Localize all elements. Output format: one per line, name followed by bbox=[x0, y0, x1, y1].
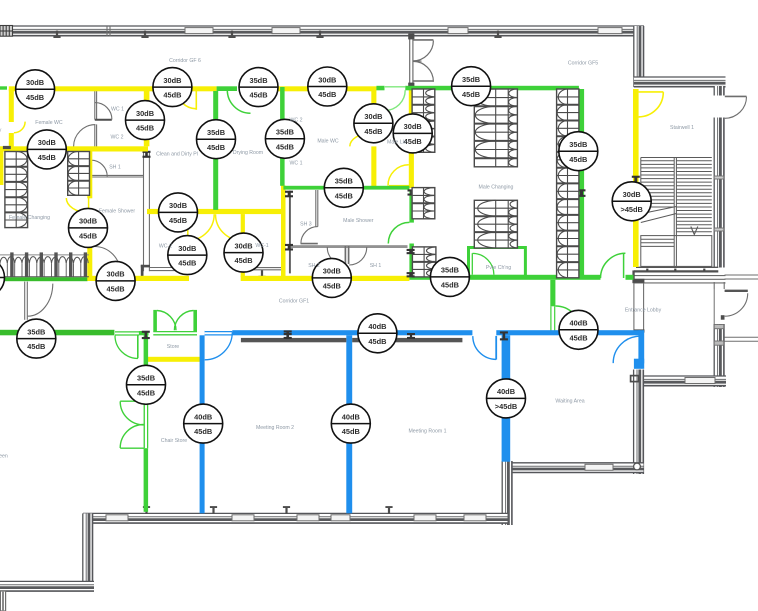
wall corridor divider gf5 bbox=[408, 34, 414, 89]
badge 30/45 changing north bbox=[27, 130, 66, 169]
wall wc2 west bbox=[95, 124, 97, 146]
lockers male-changing center upper bbox=[474, 89, 517, 167]
wall green waiting west door frame bbox=[551, 306, 555, 331]
wall entrance right stub bbox=[714, 282, 724, 289]
svg-text:45dB: 45dB bbox=[136, 124, 154, 133]
svg-text:45dB: 45dB bbox=[27, 342, 45, 351]
wall lobby west thin bbox=[633, 279, 644, 333]
badge 30/45 male-lockers west bbox=[393, 114, 432, 153]
lockers female-changing east bbox=[68, 152, 90, 196]
badge 35/45 store west bbox=[127, 365, 166, 404]
svg-text:Male WC: Male WC bbox=[317, 139, 339, 145]
svg-text:Male Changing: Male Changing bbox=[479, 185, 514, 191]
svg-text:Drying Room: Drying Room bbox=[233, 150, 263, 156]
badge 40/45 meeting2 west bbox=[184, 404, 223, 443]
badge 35/45 drying west bbox=[197, 120, 236, 159]
svg-text:35dB: 35dB bbox=[441, 266, 459, 275]
svg-text:Male Lkr: Male Lkr bbox=[387, 140, 407, 146]
svg-text:45dB: 45dB bbox=[249, 91, 267, 100]
svg-text:45dB: 45dB bbox=[107, 285, 125, 294]
wall green pvte room outline bbox=[469, 248, 526, 277]
wall green male-changing east ibeam bbox=[578, 189, 586, 197]
wall waiting south horizontal bbox=[505, 463, 644, 473]
svg-text:35dB: 35dB bbox=[137, 374, 155, 383]
wall yellow male-wc east bbox=[371, 87, 376, 133]
svg-text:40dB: 40dB bbox=[497, 387, 515, 396]
wall yellow wc divider bbox=[241, 214, 245, 277]
badge 35/45 wc1b west bbox=[265, 119, 304, 158]
wall canteen south horizontal bbox=[0, 581, 94, 591]
door yellow showers double bbox=[188, 214, 242, 240]
wall 30dB yellow corridor gf1 south-east bbox=[241, 276, 410, 281]
svg-text:30dB: 30dB bbox=[26, 78, 44, 87]
badge 30/45 wc-2 bbox=[168, 236, 207, 275]
door male-shower double bbox=[327, 246, 366, 265]
wall yellow shower corridor west lower bbox=[87, 213, 92, 278]
lockers male-changing east tall bbox=[557, 89, 579, 278]
svg-text:35dB: 35dB bbox=[462, 75, 480, 84]
lockers male-changing col1 mid bbox=[412, 188, 435, 219]
door green chair-store double bbox=[120, 401, 145, 448]
wall stairwell right window marks bbox=[714, 176, 724, 231]
svg-text:45dB: 45dB bbox=[276, 142, 294, 151]
svg-text:45dB: 45dB bbox=[169, 216, 187, 225]
wall yellow male-lockers west bbox=[409, 87, 414, 188]
wall 40dB blue meeting divider bbox=[346, 335, 352, 513]
door entrance main bbox=[725, 291, 748, 316]
wall waiting south panel bbox=[585, 464, 613, 470]
badge 30/45 wc east bbox=[126, 101, 165, 140]
wall yellow female-wc west lower bbox=[9, 133, 14, 147]
wall 40dB blue meeting north east bbox=[496, 330, 640, 335]
svg-text:30dB: 30dB bbox=[623, 190, 641, 199]
wall 30dB yellow corridor gf1 south-west bbox=[87, 276, 189, 281]
svg-text:Female Changing: Female Changing bbox=[9, 215, 50, 221]
svg-text:45dB: 45dB bbox=[318, 90, 336, 99]
badge 30/45 male-wc north bbox=[308, 67, 347, 106]
svg-text:45dB: 45dB bbox=[137, 388, 155, 397]
door green corridor lobby bbox=[601, 253, 626, 278]
wall wc-2 south double bbox=[150, 268, 188, 271]
svg-text:>45dB: >45dB bbox=[495, 402, 517, 411]
door blue store-room gap bbox=[205, 330, 233, 336]
wall female-shower east double bbox=[144, 152, 150, 272]
door green male-changing north bbox=[385, 87, 405, 111]
wall waiting south corner circle bbox=[634, 463, 641, 470]
svg-text:45dB: 45dB bbox=[38, 153, 56, 162]
door sh3 bbox=[301, 227, 318, 244]
door corridor gf6 yellow bbox=[177, 89, 197, 110]
svg-text:40dB: 40dB bbox=[342, 412, 360, 421]
svg-text:Meeting Room 1: Meeting Room 1 bbox=[408, 429, 446, 435]
wall yellow male-lockers stub bbox=[389, 185, 410, 188]
svg-text:45dB: 45dB bbox=[569, 333, 587, 342]
svg-text:WC 2: WC 2 bbox=[111, 135, 124, 141]
wall green waiting west bbox=[550, 280, 555, 307]
wall green store west bbox=[144, 335, 149, 512]
wall lobby south panel bbox=[685, 378, 715, 384]
svg-text:30dB: 30dB bbox=[107, 270, 125, 279]
svg-text:35dB: 35dB bbox=[249, 76, 267, 85]
wall 35dB green changing south bbox=[0, 277, 88, 281]
wall exterior stairwell top horizontal bbox=[634, 77, 726, 87]
door wc1 bbox=[95, 103, 112, 120]
badge 35/45 male-changing east bbox=[559, 132, 598, 171]
wall exterior top bbox=[0, 26, 644, 36]
svg-text:40dB: 40dB bbox=[194, 412, 212, 421]
svg-text:Corridor GF1: Corridor GF1 bbox=[279, 299, 309, 305]
svg-text:45dB: 45dB bbox=[194, 427, 212, 436]
wall canteen south-west stub bbox=[0, 591, 5, 611]
badge 30/45 wc-1 bbox=[224, 233, 263, 272]
svg-text:35dB: 35dB bbox=[27, 327, 45, 336]
svg-text:WC 2: WC 2 bbox=[290, 118, 303, 124]
badge 30/45 female-wc north bbox=[16, 70, 55, 109]
door yellow stairwell bbox=[639, 92, 664, 117]
wall 30dB yellow corridor gf6 west segment bbox=[9, 86, 217, 91]
svg-text:Store: Store bbox=[167, 344, 180, 350]
svg-text:30dB: 30dB bbox=[136, 109, 154, 118]
door wc2 bbox=[74, 125, 96, 147]
wall exterior top posts bbox=[53, 26, 501, 38]
door corridor gf5 double bbox=[413, 40, 433, 82]
svg-text:30dB: 30dB bbox=[364, 112, 382, 121]
wall 30dB yellow changing north bbox=[0, 146, 148, 151]
svg-text:45dB: 45dB bbox=[335, 191, 353, 200]
door canteen north bbox=[25, 282, 53, 320]
wall gray corridor gf1 line bbox=[289, 191, 291, 274]
svg-text:Waiting Area: Waiting Area bbox=[555, 399, 584, 405]
svg-text:35dB: 35dB bbox=[207, 128, 225, 137]
tee connector blue wall east bbox=[500, 331, 508, 340]
svg-text:WC-1: WC-1 bbox=[255, 243, 268, 249]
svg-text:WC 1: WC 1 bbox=[111, 107, 124, 113]
wall yellow store south bbox=[146, 357, 203, 362]
wall exterior stairwell right upper bbox=[714, 86, 724, 96]
canopy lines upper right bbox=[725, 275, 758, 279]
svg-text:Canteen: Canteen bbox=[0, 454, 8, 460]
svg-text:Female Shower: Female Shower bbox=[99, 209, 136, 215]
door green male-changing north gap bbox=[385, 85, 406, 91]
svg-text:45dB: 45dB bbox=[342, 427, 360, 436]
wall meeting1 east vertical bbox=[502, 461, 512, 525]
svg-text:45dB: 45dB bbox=[234, 256, 252, 265]
wall meeting rooms south horizontal bbox=[83, 513, 508, 523]
wall 35dB green canteen north bbox=[0, 330, 114, 336]
badge 30/45 corridor south-west bbox=[96, 261, 135, 300]
door green store double north bbox=[153, 310, 197, 335]
wall sh3 east bbox=[316, 190, 318, 227]
svg-text:30dB: 30dB bbox=[163, 76, 181, 85]
lockers female-changing west bbox=[5, 152, 28, 228]
wall waiting west ibeam bbox=[631, 376, 639, 382]
badge 30/45 corridor gf1 south bbox=[312, 258, 351, 297]
wall green pvte west lower bbox=[409, 244, 414, 277]
svg-text:Corridor GF5: Corridor GF5 bbox=[568, 61, 598, 67]
door green corridor lobby gap bbox=[601, 274, 626, 280]
wall yellow stairwell west ibeam bbox=[632, 176, 640, 184]
svg-text:30dB: 30dB bbox=[38, 138, 56, 147]
svg-text:SH 1: SH 1 bbox=[370, 263, 382, 269]
tee green pvte west top bbox=[408, 189, 416, 195]
canopy lines lower right bbox=[725, 337, 758, 341]
badge 35/45 canteen north bbox=[17, 319, 56, 358]
wall male-shower south bbox=[289, 246, 408, 247]
wall meeting south panels bbox=[106, 515, 486, 521]
wall exterior right lower bbox=[714, 324, 724, 387]
wall waiting west vertical bbox=[634, 370, 644, 475]
svg-text:30dB: 30dB bbox=[169, 201, 187, 210]
svg-text:WC 1: WC 1 bbox=[290, 161, 303, 167]
wall green male-changing east bbox=[579, 89, 584, 278]
door yellow male-wc bbox=[350, 133, 372, 146]
svg-text:Entrance Lobby: Entrance Lobby bbox=[625, 308, 662, 314]
badge partial left edge bbox=[0, 258, 5, 297]
wall 40dB blue meeting north west bbox=[205, 330, 473, 335]
wall blue lobby corner bbox=[634, 330, 644, 369]
door green canteen north bbox=[115, 332, 139, 359]
lockers male-changing center lower bbox=[474, 200, 517, 248]
door green pvte west bbox=[388, 222, 409, 243]
door yellow female-wc west bbox=[14, 122, 25, 133]
wall 35dB green male-changing north bbox=[376, 86, 579, 91]
svg-text:35dB: 35dB bbox=[276, 128, 294, 137]
badge 30/45 corridor gf6 west bbox=[153, 68, 192, 107]
svg-text:Female WC: Female WC bbox=[35, 120, 63, 126]
svg-text:Meeting Room 2: Meeting Room 2 bbox=[256, 425, 294, 431]
svg-text:30dB: 30dB bbox=[404, 122, 422, 131]
door exterior stairwell right bbox=[725, 96, 747, 118]
svg-text:30dB: 30dB bbox=[178, 244, 196, 253]
wall sh1 south bbox=[91, 175, 143, 177]
svg-text:30dB: 30dB bbox=[318, 75, 336, 84]
svg-text:Male Shower: Male Shower bbox=[343, 218, 374, 224]
svg-text:35dB: 35dB bbox=[569, 140, 587, 149]
svg-text:30dB: 30dB bbox=[234, 241, 252, 250]
svg-text:40dB: 40dB bbox=[368, 322, 386, 331]
wall 35dB green corridor gf6 segment bbox=[217, 86, 279, 91]
wall green canteen stub far left bbox=[0, 86, 7, 89]
wall yellow corridor gf1 ibeam mid bbox=[285, 244, 293, 251]
bar acoustic screen meeting1 bbox=[352, 333, 462, 342]
wall green drying west bbox=[213, 91, 218, 210]
badge 30/45 shower corridor bbox=[69, 208, 108, 247]
door corridor near canteen bbox=[94, 247, 120, 273]
svg-text:30dB: 30dB bbox=[323, 267, 341, 276]
wall yellow far-left edge bbox=[0, 152, 3, 186]
wall yellow clean-dirty west bbox=[144, 91, 150, 146]
svg-text:SH 1: SH 1 bbox=[109, 165, 121, 171]
wall exterior stairwell right lower bbox=[714, 118, 724, 272]
door blue lobby bbox=[613, 336, 640, 363]
svg-text:30dB: 30dB bbox=[79, 217, 97, 226]
svg-text:45dB: 45dB bbox=[569, 155, 587, 164]
wall yellow shower corridor west upper bbox=[87, 152, 92, 199]
wall lobby south horizontal bbox=[644, 376, 726, 386]
badge 35/45 male-changing north bbox=[452, 67, 491, 106]
door blue store-room bbox=[205, 332, 233, 360]
door green waiting west bbox=[556, 306, 581, 331]
wall green wc1b south bbox=[283, 186, 409, 190]
badge 40/>45 waiting divider bbox=[487, 379, 526, 418]
wall green pvte west bbox=[409, 190, 414, 223]
badge 40/45 meeting divider bbox=[331, 404, 370, 443]
svg-text:>45dB: >45dB bbox=[621, 205, 643, 214]
svg-text:45dB: 45dB bbox=[368, 337, 386, 346]
door blue meeting1 bbox=[473, 336, 496, 360]
badge 30/45 showers north bbox=[159, 193, 198, 232]
svg-text:45dB: 45dB bbox=[79, 232, 97, 241]
wall entrance stub below door bbox=[714, 289, 724, 324]
wall stairwell bottom bbox=[632, 267, 725, 283]
lockers male-changing col1 upper bbox=[412, 89, 435, 152]
svg-text:40dB: 40dB bbox=[569, 319, 587, 328]
wall green chair-store frame bbox=[144, 401, 148, 448]
wall yellow stairwell west bbox=[633, 89, 639, 267]
door yellow male-lockers bbox=[388, 165, 409, 186]
badge 35/45 corridor gf1 green bbox=[430, 257, 469, 296]
svg-text:45dB: 45dB bbox=[364, 127, 382, 136]
badge 40/45 waiting north bbox=[559, 310, 598, 349]
door green drying room bbox=[227, 90, 250, 113]
svg-text:Corridor GF 6: Corridor GF 6 bbox=[169, 58, 201, 64]
wall 30dB yellow corridor gf6 east segment bbox=[278, 86, 376, 91]
svg-text:45dB: 45dB bbox=[441, 281, 459, 290]
tee connector blue wall mid bbox=[284, 330, 292, 339]
svg-text:Clean and Dirty Pl: Clean and Dirty Pl bbox=[156, 152, 198, 158]
bench row female-changing bbox=[0, 252, 89, 276]
wall exterior right lower blocks bbox=[714, 325, 724, 346]
svg-text:35dB: 35dB bbox=[335, 177, 353, 186]
lockers male-changing col1 lower bbox=[412, 247, 436, 277]
lockers male-changing col1 lower ibeams bbox=[407, 249, 415, 278]
bar acoustic screen meeting2 bbox=[241, 333, 346, 342]
svg-text:45dB: 45dB bbox=[26, 93, 44, 102]
svg-text:WC-2: WC-2 bbox=[159, 244, 172, 250]
svg-text:45dB: 45dB bbox=[462, 90, 480, 99]
svg-text:Chair Store: Chair Store bbox=[161, 438, 187, 444]
badge 35/45 drying north bbox=[239, 68, 278, 107]
stairs stairwell 1 bbox=[641, 158, 712, 267]
wall yellow female-wc west bbox=[9, 89, 14, 122]
badge 30/>45 stairwell west bbox=[612, 182, 651, 221]
tee connector green store wall bbox=[142, 331, 150, 339]
svg-text:Stairwell 1: Stairwell 1 bbox=[670, 125, 694, 131]
svg-text:45dB: 45dB bbox=[207, 143, 225, 152]
door yellow shower corridor bbox=[66, 198, 88, 213]
svg-text:SH 2: SH 2 bbox=[308, 263, 320, 269]
wall female-shower east bottom corner bbox=[141, 265, 150, 277]
svg-text:45dB: 45dB bbox=[163, 91, 181, 100]
wall green canteen north short bbox=[139, 331, 149, 335]
wall female-shower east top tee bbox=[143, 151, 151, 158]
wall 40dB blue meeting2 west bbox=[200, 335, 205, 513]
wall 35dB green corridor gf1 south bbox=[409, 275, 633, 280]
wall yellow corridor gf1 north-west bbox=[281, 185, 286, 277]
door green pvte room bbox=[472, 253, 494, 275]
wall wc-1 south double bbox=[245, 268, 281, 278]
door sh1 bbox=[91, 160, 107, 176]
svg-text:45dB: 45dB bbox=[178, 259, 196, 268]
wall wc1 west bbox=[95, 89, 97, 120]
wall green wc1b west bbox=[280, 87, 285, 186]
wall canteen west vertical bbox=[83, 513, 93, 582]
wall yellow changing north corner mark bbox=[3, 146, 11, 149]
wall yellow male-wc east lower bbox=[371, 146, 376, 187]
wall 30dB yellow showers north bbox=[147, 209, 281, 214]
badge 35/45 male-shower north bbox=[324, 168, 363, 207]
wall exterior top-right corner vertical bbox=[634, 26, 644, 87]
svg-text:45dB: 45dB bbox=[323, 282, 341, 291]
wall 40dB blue waiting divider thick bbox=[502, 335, 511, 461]
wall meeting south posts bbox=[143, 506, 393, 514]
svg-text:Pvte Ch'ng: Pvte Ch'ng bbox=[486, 265, 511, 271]
door green drying room gap bbox=[237, 86, 251, 92]
svg-text:SH 3: SH 3 bbox=[300, 222, 312, 228]
wall exterior top left window block bbox=[0, 26, 13, 37]
badge 40/45 meeting north bbox=[358, 314, 397, 353]
wall exterior top panels bbox=[185, 28, 622, 34]
badge 30/45 male-wc east bbox=[354, 104, 393, 143]
wall yellow corridor gf1 ibeam top bbox=[285, 191, 293, 198]
